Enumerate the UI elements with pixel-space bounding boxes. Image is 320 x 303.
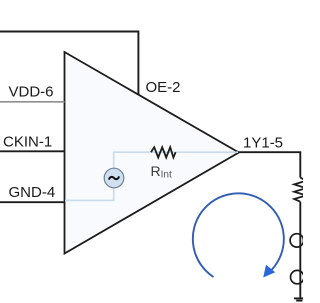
svg-text:CKIN-1: CKIN-1 xyxy=(3,134,52,151)
ground xyxy=(294,298,307,300)
connector loop 2 xyxy=(291,270,304,283)
wire CKIN pin xyxy=(0,150,65,152)
resistor R_int xyxy=(151,147,176,157)
resistor termination (clipped at right edge) xyxy=(294,178,306,202)
internal wire (light blue loop: GND edge to source to R_int to apex) xyxy=(65,152,238,200)
svg-text:VDD-6: VDD-6 xyxy=(9,83,54,100)
svg-text:1Y1-5: 1Y1-5 xyxy=(243,134,283,151)
svg-text:OE-2: OE-2 xyxy=(146,79,181,96)
wire to ground xyxy=(299,202,301,299)
current loop arrow (blue) xyxy=(193,193,284,277)
wire output 1Y1 (apex to right rail) xyxy=(239,152,300,177)
wire OE-2 (top rail and drop to buffer) xyxy=(0,32,138,95)
svg-text:GND-4: GND-4 xyxy=(9,184,56,201)
source ~ (internal oscillator) xyxy=(104,168,124,188)
wire GND pin xyxy=(0,201,65,203)
connector loop 1 xyxy=(290,234,303,247)
wire VDD pin xyxy=(0,101,65,103)
buffer U1 (triangle body) xyxy=(65,52,239,254)
